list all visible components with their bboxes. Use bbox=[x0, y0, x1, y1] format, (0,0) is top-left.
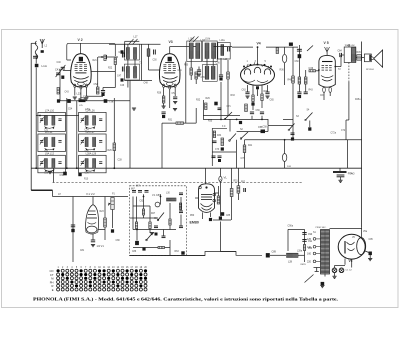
wire V4 pin e down bbox=[257, 89, 259, 96]
IF transformer T2 arrows bbox=[189, 37, 199, 43]
switch S5 circle bbox=[155, 202, 160, 207]
resistor R30 bbox=[190, 68, 193, 75]
wire T1 bot lead bbox=[127, 80, 129, 88]
resistor R32 bbox=[195, 72, 198, 79]
ground C51 bbox=[173, 102, 177, 104]
wire x203 v bbox=[203, 100, 205, 119]
wire T1 mid lead a bbox=[127, 59, 129, 67]
wire R52 top bbox=[237, 168, 239, 186]
wire C58 right bbox=[265, 131, 268, 133]
capacitor C78 bbox=[260, 112, 264, 114]
ground V6 right bbox=[368, 259, 372, 261]
wire vol col bbox=[72, 197, 74, 263]
resistor R63 bbox=[158, 246, 165, 248]
wire pad top link2 bbox=[125, 40, 140, 42]
coil box L24/L26 bbox=[79, 112, 107, 131]
ground T2 bbox=[197, 74, 201, 76]
resistor R42 bbox=[298, 77, 301, 84]
IF transformer T1 upper can outline bbox=[124, 44, 139, 60]
svg-text:TRASF.USC: TRASF.USC bbox=[345, 44, 356, 47]
tube V5 grid fork bbox=[325, 47, 330, 52]
svg-text:C54: C54 bbox=[68, 109, 73, 111]
antenna terminal bbox=[41, 50, 44, 53]
svg-text:V.1 V.2: V.1 V.2 bbox=[86, 192, 95, 196]
wire antenna top bbox=[31, 42, 36, 44]
wire kb a bbox=[136, 197, 138, 223]
resistor R39 bbox=[261, 94, 263, 101]
capacitor C88m bbox=[179, 226, 183, 228]
svg-text:C55: C55 bbox=[201, 77, 206, 79]
capacitor C68 bbox=[304, 92, 308, 94]
svg-text:R35: R35 bbox=[208, 121, 213, 123]
svg-text:R30: R30 bbox=[184, 65, 189, 67]
svg-text:C85: C85 bbox=[226, 215, 231, 217]
svg-text:C43: C43 bbox=[65, 92, 70, 94]
svg-text:R32: R32 bbox=[196, 100, 201, 102]
coil box L9A/L12 bbox=[38, 155, 66, 173]
svg-text:R28: R28 bbox=[157, 93, 162, 95]
capacitor C84 bbox=[145, 191, 149, 193]
wire coil bank left feed bbox=[35, 112, 37, 168]
capacitor C66 blob bbox=[251, 102, 254, 105]
wire OT to R45 bbox=[356, 57, 357, 59]
switch table row PH bbox=[50, 280, 147, 284]
node kb c bbox=[136, 229, 138, 231]
capacitor C58 box bbox=[261, 130, 266, 134]
svg-text:125: 125 bbox=[307, 238, 312, 241]
svg-text:R34: R34 bbox=[217, 135, 222, 137]
IF transformer T3 lower primary bbox=[205, 66, 209, 79]
ground kb bbox=[150, 233, 154, 235]
wire col x299 bbox=[298, 45, 300, 77]
svg-text:PHONOLA (FIMI S.A.) - Modd. 64: PHONOLA (FIMI S.A.) - Modd. 641/645 e 64… bbox=[33, 296, 338, 301]
capacitor C60 bbox=[297, 49, 302, 51]
wire x196 v bbox=[195, 108, 197, 123]
capacitor EM blob bbox=[209, 218, 212, 221]
wire right col x293 bbox=[292, 47, 294, 140]
wire T1 right col bbox=[141, 44, 143, 80]
capacitor C85 bbox=[179, 193, 183, 195]
wire V2 grid-cap loop top bbox=[67, 43, 116, 60]
wire heater drop bbox=[52, 190, 54, 196]
resistor R41 bbox=[243, 145, 246, 153]
wire s8 v bbox=[309, 121, 311, 128]
svg-text:E: E bbox=[52, 288, 54, 292]
capacitor C101 bbox=[162, 236, 166, 238]
svg-text:220: 220 bbox=[307, 261, 312, 264]
coil box L7A/L10 bbox=[38, 112, 66, 131]
wire V5 plate to OT bbox=[335, 66, 341, 68]
ground V1 bbox=[91, 245, 95, 247]
svg-text:L28: L28 bbox=[288, 261, 293, 264]
wire x162 down bbox=[161, 123, 163, 168]
svg-text:C81: C81 bbox=[80, 250, 85, 252]
wire mid column a bbox=[220, 58, 222, 75]
svg-text:C26: C26 bbox=[85, 173, 90, 175]
svg-text:C67: C67 bbox=[320, 95, 325, 97]
wire OT down jog2 bbox=[345, 120, 347, 128]
wire osc right bbox=[107, 56, 119, 58]
wire lamp up bbox=[284, 47, 286, 54]
wire x288 drop bbox=[287, 229, 289, 251]
capacitor C89k blob bbox=[181, 251, 184, 254]
wire V5 pin a down bbox=[323, 92, 325, 100]
capacitor C53 bbox=[162, 112, 166, 114]
wire top rail through V4 bbox=[232, 46, 253, 48]
IF transformer T3 secondary bbox=[212, 43, 216, 59]
wire mid rail y140 bbox=[245, 139, 362, 141]
svg-text:C95: C95 bbox=[369, 239, 374, 241]
svg-text:C23: C23 bbox=[44, 173, 49, 175]
tube V5 grid dashes bbox=[322, 66, 332, 71]
capacitor C64 bbox=[340, 53, 342, 57]
resistor R61 bbox=[142, 209, 144, 215]
wire top rail right of V4 bbox=[266, 46, 298, 48]
T2 primary bbox=[189, 43, 193, 59]
wire T2 bottom leads bbox=[190, 59, 192, 69]
svg-text:R63: R63 bbox=[175, 251, 180, 253]
wire R51 bot bbox=[231, 197, 233, 221]
fuse lamp symbol bbox=[282, 54, 286, 62]
tube V5 pin left bbox=[318, 69, 320, 71]
keyboard unit dashed box bbox=[130, 186, 187, 256]
capacitor C82 bbox=[132, 191, 136, 193]
wire pot down bbox=[112, 210, 114, 229]
svg-text:R22: R22 bbox=[108, 68, 113, 70]
capacitor C1 antenna bbox=[33, 56, 38, 58]
capacitor C57 bbox=[228, 47, 230, 52]
svg-text:V6a: V6a bbox=[363, 231, 368, 233]
mains plug bbox=[314, 268, 321, 272]
resistor R44 bbox=[309, 70, 316, 72]
switch table row CO bbox=[49, 269, 147, 273]
wire T3 bottom lead bbox=[206, 59, 208, 67]
ground mid b bbox=[173, 109, 177, 111]
wire V1 plate up bbox=[92, 197, 94, 205]
wire V6 fil down a bbox=[344, 259, 346, 265]
svg-text:C53: C53 bbox=[172, 93, 177, 95]
IF transformer T3 primary bbox=[205, 43, 209, 59]
ground V4 d bbox=[265, 96, 269, 98]
wire x220 chassis jog bbox=[220, 251, 236, 253]
svg-text:C40: C40 bbox=[57, 62, 62, 64]
svg-text:C28: C28 bbox=[118, 160, 123, 162]
resistor R43 bbox=[304, 77, 307, 84]
capacitor C59 bbox=[219, 75, 223, 77]
tube V4 rim hatches bbox=[247, 62, 270, 68]
coil box L8/L11 bbox=[38, 134, 66, 152]
tone control capacitor bbox=[333, 171, 347, 173]
svg-text:C65: C65 bbox=[270, 100, 275, 102]
wire kb r col bbox=[180, 197, 182, 211]
wire kb v1 bbox=[132, 197, 134, 230]
terminal T1 left bbox=[121, 50, 124, 53]
svg-text:C1 C2: C1 C2 bbox=[346, 270, 353, 272]
resistor R22 bbox=[96, 87, 99, 94]
tube V2 cathode arcs bbox=[73, 77, 89, 83]
switch table row CT bbox=[50, 273, 147, 277]
svg-text:C72a: C72a bbox=[331, 133, 337, 135]
scale lamp fuse bbox=[282, 154, 286, 162]
tube V3 grid dashes bbox=[163, 65, 175, 71]
svg-text:C24: C24 bbox=[85, 130, 90, 132]
svg-text:L17: L17 bbox=[134, 36, 139, 39]
node bank b bbox=[66, 167, 68, 169]
wire trans to V6 bbox=[330, 228, 362, 230]
wire L17 bot bbox=[148, 56, 150, 70]
capacitor C53 blob bbox=[162, 115, 165, 118]
wire OT secondary down dashed bbox=[348, 63, 350, 83]
wire C58 up bbox=[267, 126, 269, 132]
wire lamp2 down bbox=[284, 162, 286, 169]
svg-text:V3: V3 bbox=[169, 40, 173, 44]
dial lamp VL bbox=[219, 176, 222, 181]
wire osc section bbox=[98, 56, 105, 58]
wire caps link bbox=[334, 266, 336, 269]
node rail lamp2 bbox=[284, 139, 286, 141]
switch table column headers bbox=[57, 267, 147, 269]
wire R22 top bbox=[97, 57, 99, 87]
svg-text:R10: R10 bbox=[84, 179, 89, 181]
svg-text:C90: C90 bbox=[308, 234, 313, 236]
wire box row1 link bbox=[36, 115, 78, 117]
wire R21 down bbox=[114, 65, 116, 88]
wire lamps down bbox=[219, 182, 221, 216]
filter choke L28 bbox=[287, 253, 299, 257]
svg-text:C41: C41 bbox=[55, 68, 60, 72]
svg-text:C64: C64 bbox=[338, 51, 343, 53]
wire V2 pin1 down bbox=[74, 88, 76, 96]
svg-text:L28a: L28a bbox=[297, 251, 303, 253]
capacitor C45 bbox=[122, 53, 124, 58]
wire y96 link bbox=[86, 95, 103, 97]
wire x130 column bbox=[129, 80, 131, 168]
svg-text:L25a: L25a bbox=[85, 109, 91, 111]
svg-text:CO: CO bbox=[49, 269, 53, 273]
tube V2 inner ellipse bbox=[78, 82, 85, 85]
node y119 c bbox=[261, 119, 263, 121]
svg-text:R41: R41 bbox=[248, 145, 253, 147]
wire to L28 bbox=[270, 254, 286, 256]
wire heater thick bbox=[31, 189, 52, 191]
resistor R24 bbox=[179, 203, 181, 210]
tube V1 inner ellipse bbox=[87, 226, 97, 233]
electrolytic C93 bbox=[332, 268, 337, 273]
wire V4 pin c down bbox=[261, 85, 263, 94]
svg-text:C91: C91 bbox=[308, 241, 313, 243]
wire y229 run bbox=[288, 228, 305, 230]
svg-text:1/2 V1: 1/2 V1 bbox=[97, 245, 105, 248]
svg-text:R36: R36 bbox=[280, 70, 285, 72]
capacitor C69 bbox=[291, 133, 295, 135]
switch S7 bbox=[146, 233, 153, 241]
switch unit box bbox=[212, 128, 227, 166]
tube V3 anode blob bbox=[168, 57, 172, 62]
wire V3 pin down a bbox=[163, 88, 165, 97]
svg-text:C50: C50 bbox=[153, 60, 158, 62]
capacitor C61 blob bbox=[298, 54, 302, 58]
wire V3 pin down c bbox=[174, 88, 176, 97]
ground blob chassis bbox=[321, 282, 325, 285]
node y119 b bbox=[236, 119, 238, 121]
capacitor C70 blob bbox=[214, 102, 217, 106]
capacitor C80 blob bbox=[71, 229, 74, 232]
IF transformer T1 primary lower bbox=[126, 67, 129, 79]
wire kb v8 bbox=[169, 240, 171, 256]
wire x228 v2 bbox=[227, 79, 229, 116]
wire R30 down bbox=[190, 75, 192, 80]
wire heater line bbox=[53, 196, 129, 198]
wire V3 pin b long bbox=[169, 100, 171, 108]
svg-text:C63: C63 bbox=[242, 90, 247, 92]
capacitor C50 bbox=[154, 50, 156, 55]
capacitor C71m bbox=[218, 108, 222, 110]
mains switch diagonal bbox=[305, 275, 314, 283]
svg-text:C46: C46 bbox=[120, 85, 125, 87]
electrolytic C94 bbox=[339, 268, 344, 273]
svg-text:C52: C52 bbox=[94, 84, 99, 86]
wire x220 chassis drop bbox=[219, 222, 221, 252]
svg-text:L23: L23 bbox=[77, 93, 82, 96]
IF transformer T3 lower secondary bbox=[211, 66, 215, 79]
wire kb v3 bbox=[160, 194, 162, 204]
svg-text:C71: C71 bbox=[227, 106, 232, 108]
svg-text:C25: C25 bbox=[85, 151, 90, 153]
wire c78 down bbox=[261, 116, 263, 120]
wire OT left bbox=[340, 55, 342, 67]
wire V4 pin d down bbox=[267, 85, 269, 92]
switch S9 diagonal bbox=[289, 124, 295, 131]
ground tone bbox=[338, 180, 342, 182]
resistor R31 bbox=[176, 122, 184, 124]
component reference labels group bbox=[44, 39, 373, 254]
capacitor C42 blob bbox=[61, 76, 64, 79]
capacitor C83 bbox=[138, 191, 142, 193]
svg-text:C21: C21 bbox=[44, 130, 49, 132]
resistor R21 bbox=[114, 58, 116, 65]
capacitor C88 blob bbox=[221, 212, 224, 216]
capacitor C77 bbox=[250, 112, 254, 114]
svg-text:R26: R26 bbox=[108, 150, 113, 152]
resistor R40 bbox=[292, 76, 295, 83]
svg-text:M.F.: M.F. bbox=[136, 186, 141, 188]
ground V3 cathode bbox=[162, 106, 166, 108]
svg-text:R45a: R45a bbox=[355, 99, 361, 101]
wire box bottom seg bbox=[212, 151, 236, 153]
wire V4 grid lead bbox=[257, 47, 259, 64]
wire lamp link bbox=[213, 219, 231, 221]
switch S6 bbox=[157, 213, 164, 221]
wire V3 plate top bbox=[169, 47, 171, 54]
resistor R19 bbox=[57, 88, 59, 95]
svg-text:C51: C51 bbox=[178, 70, 183, 72]
resistor R50 bbox=[217, 196, 220, 204]
resistor R29 bbox=[205, 103, 207, 110]
capacitor C89 blob bbox=[266, 253, 270, 257]
svg-text:C66: C66 bbox=[256, 110, 261, 112]
wire V2 right mid bbox=[91, 71, 116, 73]
wire V5 pin b down bbox=[329, 92, 331, 96]
wire T1 top lead bbox=[127, 44, 129, 47]
wire kb mid bbox=[130, 217, 158, 219]
resistor R28 bbox=[162, 96, 165, 103]
capacitor C102 blob bbox=[155, 233, 158, 236]
capacitor C67 bbox=[297, 92, 301, 94]
node V4 grid bbox=[257, 46, 259, 48]
capacitor C79 blob bbox=[239, 121, 242, 124]
wire EM80 down a bbox=[202, 212, 204, 219]
wire y119 seg bbox=[203, 118, 268, 120]
wire R51 top bbox=[231, 168, 233, 188]
resistor R62 bbox=[169, 219, 171, 225]
wire under T1 bbox=[124, 80, 152, 82]
wire R43 down bbox=[305, 84, 307, 92]
svg-text:C82: C82 bbox=[140, 201, 145, 203]
wire V3 to T2 bbox=[170, 46, 197, 48]
terminal AT bbox=[35, 64, 39, 67]
tube EM80 target cup bbox=[201, 204, 213, 211]
wire R42 down bbox=[298, 84, 300, 92]
tube V4 bottom arcs bbox=[243, 80, 268, 83]
wire V4 pin b down bbox=[252, 85, 254, 95]
IF transformer T1 secondary lower bbox=[134, 67, 137, 79]
coil box L28A/L29 bbox=[79, 155, 107, 173]
svg-text:PRIM. SEC.: PRIM. SEC. bbox=[316, 227, 327, 229]
tube EM80 grid bars bbox=[201, 194, 212, 196]
capacitor V1 coupling blob bbox=[111, 229, 114, 232]
svg-text:R29: R29 bbox=[206, 98, 211, 100]
capacitor C65 bbox=[265, 92, 269, 94]
svg-text:C73: C73 bbox=[215, 149, 220, 151]
svg-text:V 5: V 5 bbox=[324, 41, 329, 45]
transformer primary taps bbox=[313, 238, 320, 263]
tube V4 inner electrodes bbox=[244, 69, 250, 75]
svg-text:C72: C72 bbox=[341, 130, 346, 132]
svg-text:TONO: TONO bbox=[348, 174, 355, 176]
wire seg y123 bbox=[162, 122, 196, 124]
capacitor C51 bbox=[173, 97, 177, 99]
node osc grid bbox=[101, 56, 103, 58]
node y119 a bbox=[220, 119, 222, 121]
capacitor C55 bbox=[197, 70, 201, 72]
svg-text:C22: C22 bbox=[44, 151, 49, 153]
wire x114 column bbox=[113, 98, 115, 168]
svg-text:C47: C47 bbox=[117, 76, 122, 78]
svg-text:R27: R27 bbox=[151, 213, 156, 215]
wire OT left2 bbox=[341, 54, 344, 56]
antenna loop coil L1 bbox=[35, 41, 38, 59]
resistor R53 bbox=[303, 245, 305, 251]
switch table row M bbox=[51, 277, 147, 281]
tube V4 pin dots bbox=[243, 66, 245, 68]
wire kb h1 bbox=[133, 205, 150, 207]
IF transformer T3 can outline bbox=[203, 41, 218, 62]
svg-text:R43: R43 bbox=[309, 90, 314, 92]
svg-text:C48: C48 bbox=[144, 83, 149, 85]
wire y119 right bbox=[283, 118, 293, 120]
resistor R36 bbox=[276, 48, 278, 54]
wire EM column bbox=[219, 168, 221, 176]
wire lamp down bbox=[284, 63, 286, 85]
capacitor C100 bbox=[154, 226, 158, 228]
terminal L2B bbox=[104, 99, 108, 103]
node box row1 bbox=[39, 115, 41, 117]
power transformer winding bbox=[321, 230, 330, 275]
wire V5 top lead bbox=[326, 52, 328, 55]
tube V2 screen marks bbox=[75, 72, 86, 74]
capacitor C67 blob bbox=[298, 95, 301, 98]
IF transformer T1 lower can outline bbox=[124, 64, 139, 80]
